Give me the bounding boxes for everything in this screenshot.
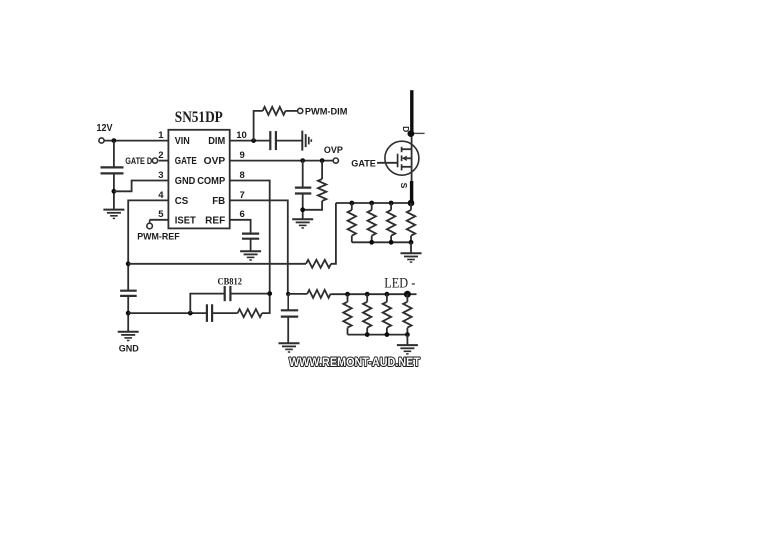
capacitor C2 on CS node xyxy=(120,290,137,292)
junction bank1 bottom dots xyxy=(369,240,374,245)
wire H1 to bank1 top rail xyxy=(331,203,336,264)
wire pin4 CS left and down xyxy=(128,200,168,290)
svg-text:CB812: CB812 xyxy=(218,277,243,287)
svg-text:GATE: GATE xyxy=(351,158,376,169)
node OVP terminal xyxy=(333,158,338,163)
ground below bank2 xyxy=(397,344,418,346)
junction CS sense line xyxy=(126,261,131,266)
svg-text:S: S xyxy=(399,183,409,189)
svg-text:PWM-REF: PWM-REF xyxy=(137,231,180,242)
capacitor C5 FB filter xyxy=(287,294,289,310)
svg-text:3: 3 xyxy=(158,170,163,181)
wire 12V node down to C1 xyxy=(113,141,115,168)
ground sideways on DIM line xyxy=(301,131,303,151)
svg-text:VIN: VIN xyxy=(175,136,190,147)
resistor H1 in CS sense line xyxy=(306,260,331,268)
ground below bank1 xyxy=(401,252,422,254)
svg-text:REF: REF xyxy=(205,215,225,226)
capacitor C4 CB812 xyxy=(224,286,226,301)
wire bank2 top rail xyxy=(331,293,408,295)
wire pin7 FB right and down xyxy=(230,200,288,294)
wire drain stub right xyxy=(414,132,425,134)
transistor Q1 MOSFET body circle xyxy=(385,141,419,175)
junction OVP bottom xyxy=(300,207,305,212)
svg-text:GND: GND xyxy=(175,176,196,187)
ground below C1 xyxy=(103,209,124,211)
wire 12V to pin1 VIN xyxy=(104,140,168,142)
wire R6 bottom to C7 bottom xyxy=(303,201,322,210)
wire up to CB812 branch xyxy=(190,294,224,314)
wire bank1 to ground xyxy=(410,242,412,253)
Q1 body arrow xyxy=(402,156,407,161)
capacitor C6 REF bypass xyxy=(242,233,259,235)
ground below C5 xyxy=(279,342,300,344)
wire CB812 to comp node xyxy=(230,293,269,295)
Q1 gate bar xyxy=(397,154,399,168)
node 12V input terminal xyxy=(99,138,104,143)
capacitor C7 OVP xyxy=(302,161,304,188)
svg-text:2: 2 xyxy=(158,150,163,161)
resistor bank2 R6 xyxy=(366,294,368,302)
Q1 internal right bar xyxy=(411,149,413,167)
resistor R6 OVP divider xyxy=(321,161,323,179)
wire LED- stub xyxy=(407,293,416,295)
junction pin3 return xyxy=(112,189,117,194)
capacitor C8 series DIM xyxy=(269,131,271,150)
svg-text:1: 1 xyxy=(158,130,164,141)
ground below OVP network xyxy=(292,218,313,220)
svg-text:PWM-DIM: PWM-DIM xyxy=(305,106,348,117)
junction comp node xyxy=(267,291,272,296)
svg-text:4: 4 xyxy=(158,190,164,201)
ground GND main xyxy=(118,331,139,333)
resistor H2 FB to LED bank xyxy=(288,293,307,295)
wire Q1 drain to drain dot xyxy=(411,134,413,150)
svg-text:GATE D: GATE D xyxy=(125,156,152,167)
junction OVP res branch xyxy=(320,158,325,163)
Q1 source stub xyxy=(402,166,412,168)
svg-text:10: 10 xyxy=(236,130,247,141)
wire C2 to ground xyxy=(127,296,129,332)
svg-text:LED -: LED - xyxy=(384,276,415,292)
svg-text:CS: CS xyxy=(175,196,189,207)
wire CS sense line horizontal xyxy=(128,263,306,265)
Q1 drain stub xyxy=(402,148,412,150)
svg-text:12V: 12V xyxy=(97,123,113,134)
wire pin10 DIM xyxy=(230,140,271,142)
wire bank2 to ground xyxy=(406,335,408,345)
svg-text:ISET: ISET xyxy=(175,215,196,226)
resistor bank1 R1 xyxy=(351,203,353,210)
svg-text:OVP: OVP xyxy=(204,156,226,167)
junction comp branch split xyxy=(188,311,193,316)
node PWM-REF terminal xyxy=(147,223,153,229)
junction drain node D xyxy=(408,130,415,137)
junction bank1 top dots xyxy=(349,201,354,206)
wire GATE D to pin2 xyxy=(159,160,169,162)
svg-text:GND: GND xyxy=(119,343,140,353)
resistor bank1 R3 xyxy=(390,203,392,210)
capacitor C1 input bypass xyxy=(101,166,124,168)
wire pin9 OVP to terminal xyxy=(230,160,334,162)
svg-text:7: 7 xyxy=(240,190,245,201)
junction C2 bottom node xyxy=(126,311,131,316)
wire R7 to PWM-DIM terminal xyxy=(286,110,298,112)
Q1 channel segments xyxy=(401,147,403,152)
svg-text:9: 9 xyxy=(240,150,245,161)
junction LED- terminal big dot xyxy=(404,291,411,298)
resistor R7 PWM-DIM series xyxy=(263,107,286,115)
svg-text:OVP: OVP xyxy=(324,145,344,156)
resistor bank2 R7 xyxy=(386,294,388,302)
junction bank1 source node big dot xyxy=(408,200,415,207)
wire R5 to C3 xyxy=(212,312,238,314)
ground below C6 xyxy=(240,250,261,252)
wire Q1 source down xyxy=(411,167,413,182)
op-amp U1 SN51DP IC body xyxy=(168,130,229,229)
wire C8 to sideways ground xyxy=(276,140,302,142)
junction bank2 bottom dots xyxy=(365,332,370,337)
resistor bank2 R8 xyxy=(406,294,408,302)
wire thick drain lead up xyxy=(410,90,413,133)
svg-text:5: 5 xyxy=(158,209,164,220)
junction OVP cap branch xyxy=(300,158,305,163)
wire pin6 REF to C6 xyxy=(230,220,251,234)
Q1 gate lead xyxy=(377,162,398,164)
wire DIM up to R7 xyxy=(254,111,263,141)
capacitor C3 series comp xyxy=(206,304,208,322)
junction bank2 top dots xyxy=(345,292,350,297)
node PWM-DIM terminal xyxy=(298,108,303,113)
wire C1 to ground xyxy=(113,173,115,209)
junction on 12V rail xyxy=(112,138,117,143)
wire C3 to CS node xyxy=(128,312,207,314)
wire thick source lead xyxy=(410,181,413,203)
wire bank1 top rail xyxy=(336,202,411,204)
wire bank2 bottom rail xyxy=(348,334,408,336)
wire pin3 GND to ground rail xyxy=(114,181,168,192)
svg-text:DIM: DIM xyxy=(208,136,225,147)
svg-text:6: 6 xyxy=(240,209,245,220)
junction FB node xyxy=(286,292,290,296)
svg-text:COMP: COMP xyxy=(197,176,225,187)
svg-text:GATE: GATE xyxy=(175,156,197,167)
resistor bank1 R2 xyxy=(371,203,373,210)
resistor bank2 R5 xyxy=(347,294,349,302)
wire pin5 ISET stub xyxy=(150,219,169,221)
wire pin8 COMP right and down xyxy=(230,181,270,294)
resistor R5 series comp xyxy=(238,309,262,317)
wire comp node left along RC xyxy=(262,294,270,314)
svg-text:8: 8 xyxy=(240,170,245,181)
wire bank1 bottom rail xyxy=(352,241,411,243)
junction DIM node xyxy=(251,138,256,143)
svg-text:D: D xyxy=(401,126,411,132)
svg-text:SN51DP: SN51DP xyxy=(175,109,223,126)
svg-text:WWW.REMONT-AUD.NET: WWW.REMONT-AUD.NET xyxy=(289,357,420,369)
svg-text:FB: FB xyxy=(212,196,225,207)
resistor bank1 R4 xyxy=(410,203,412,210)
